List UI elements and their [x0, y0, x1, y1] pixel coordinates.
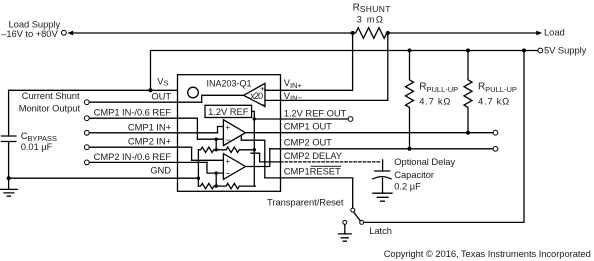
wire amp output to OUT pin — [202, 95, 244, 102]
wire CMP2 IN+ internal — [192, 147, 224, 160]
resistor divider row lower — [198, 183, 255, 188]
op-amp U1 IC box INA203-Q1 — [178, 75, 281, 192]
wire gnd vertical internal — [197, 150, 199, 186]
svg-text:GND: GND — [150, 165, 171, 176]
wire CMP1 minus drop — [215, 139, 217, 150]
switch transparent/reset-latch top contact — [351, 208, 355, 212]
node dot upper row minus — [215, 148, 218, 151]
svg-text:VS: VS — [157, 76, 168, 88]
wire 5V rail — [151, 51, 538, 91]
node 1.2V REF OUT terminal — [348, 117, 353, 122]
node dot ref out tee — [253, 117, 256, 120]
node CMP2 OUT terminal — [493, 146, 498, 151]
svg-text:Current Shunt: Current Shunt — [22, 90, 80, 101]
pin 1 indicator circle — [188, 87, 199, 98]
wire load supply top rail with left arrowhead — [72, 32, 353, 34]
comparator CMP1 — [223, 120, 245, 146]
svg-text:INA203-Q1: INA203-Q1 — [207, 78, 252, 88]
svg-text:Latch: Latch — [369, 225, 392, 236]
resistor divider row upper — [198, 147, 255, 152]
switch right contact — [360, 220, 364, 224]
svg-text:CMP1RESET: CMP1RESET — [284, 165, 341, 176]
svg-text:CMP2 DELAY: CMP2 DELAY — [284, 150, 343, 161]
svg-text:+: + — [260, 83, 265, 93]
wire CMP1 OUT row — [246, 132, 494, 134]
node rail dot pullup1 — [408, 49, 412, 53]
svg-text:+: + — [225, 122, 230, 132]
node CMP2 IN- terminal — [84, 160, 89, 165]
switch left contact — [343, 220, 347, 224]
node dot lower row minus — [215, 184, 218, 187]
wire CMP1 RESET internal stub — [241, 136, 280, 178]
svg-text:−: − — [260, 99, 265, 109]
svg-text:CMP2 IN+: CMP2 IN+ — [128, 136, 172, 147]
svg-text:Copyright © 2016, Texas Instru: Copyright © 2016, Texas Instruments Inco… — [384, 248, 591, 259]
node OUT terminal — [84, 100, 89, 105]
svg-text:RPULL-UP: RPULL-UP — [419, 81, 458, 94]
node CMP2 IN+ terminal — [84, 145, 89, 150]
svg-text:CMP2 IN-/0.6 REF: CMP2 IN-/0.6 REF — [94, 151, 172, 162]
ground symbol switch — [338, 234, 351, 241]
resistor RSHUNT — [355, 28, 388, 39]
svg-text:Transparent/Reset: Transparent/Reset — [267, 196, 344, 207]
svg-text:0.2 µF: 0.2 µF — [394, 181, 421, 192]
resistor RPULLUP1 — [406, 51, 414, 149]
ground symbol delay cap — [373, 193, 392, 201]
node 5V supply terminal — [538, 48, 543, 53]
svg-text:CMP2 OUT: CMP2 OUT — [284, 137, 332, 148]
wire CMP2 IN- row — [89, 161, 207, 163]
wire latch to 5V rail — [364, 51, 524, 223]
wire CMP2 OUT row — [270, 148, 493, 150]
node CMP1 OUT terminal — [493, 130, 498, 135]
node CMP1 IN- terminal — [84, 116, 89, 121]
wire CMP1 IN+ row — [89, 132, 217, 134]
svg-text:CMP1 IN-/0.6 REF: CMP1 IN-/0.6 REF — [94, 107, 172, 118]
svg-text:–16V to +80V: –16V to +80V — [1, 28, 58, 39]
wire 1.2V REF OUT row — [254, 118, 348, 120]
svg-text:Load: Load — [544, 26, 565, 37]
svg-text:CMP1 IN+: CMP1 IN+ — [128, 121, 172, 132]
node dot upper row ref feed — [253, 148, 256, 151]
node Load Supply terminal — [62, 30, 67, 35]
wire GND row — [9, 177, 199, 179]
svg-text:−: − — [225, 169, 230, 179]
comparator CMP2 — [223, 154, 245, 180]
wire CMP2 minus drop — [215, 173, 217, 186]
wire CMP1 IN- row — [89, 117, 197, 119]
wire CMP2 DELAY internal stub — [251, 153, 281, 162]
svg-text:1.2V REF: 1.2V REF — [208, 106, 249, 117]
svg-text:Capacitor: Capacitor — [394, 169, 434, 180]
node junction right of RSHUNT — [386, 31, 390, 35]
svg-text:VIN+: VIN+ — [284, 77, 303, 90]
capacitor CBYPASS — [8, 90, 10, 136]
svg-text:4.7 kΩ: 4.7 kΩ — [478, 96, 510, 107]
wire VIN+ riser from shunt — [265, 33, 353, 90]
node GND junction dot left — [7, 176, 11, 180]
wire VIN- riser from shunt — [265, 33, 388, 100]
svg-text:0.01 µF: 0.01 µF — [21, 141, 53, 152]
node dot pullup1 on CMP2 OUT — [408, 147, 412, 151]
svg-text:VIN−: VIN− — [284, 90, 303, 103]
svg-text:OUT: OUT — [151, 91, 171, 102]
op-amp x20 current shunt amp — [244, 83, 265, 106]
svg-text:Optional Delay: Optional Delay — [394, 156, 455, 167]
component 1.2V REF box — [205, 105, 252, 117]
wire VS row — [9, 89, 178, 91]
node CMP1 IN+ terminal — [84, 130, 89, 135]
node junction left of RSHUNT — [351, 31, 355, 35]
ground symbol left — [0, 178, 17, 196]
wire left contact to ground — [344, 225, 346, 234]
node dot pullup2 on CMP1 OUT — [466, 131, 470, 135]
svg-text:4.7 kΩ: 4.7 kΩ — [419, 96, 451, 107]
svg-text:+: + — [225, 156, 230, 166]
wire to Load arrow — [388, 32, 538, 34]
wire CMP1 IN+ internal — [218, 127, 224, 133]
svg-text:Monitor Output: Monitor Output — [19, 102, 81, 113]
svg-text:5V Supply: 5V Supply — [544, 45, 587, 56]
wire OUT row — [89, 101, 202, 103]
svg-text:CMP1 OUT: CMP1 OUT — [284, 120, 332, 131]
svg-text:1.2V REF OUT: 1.2V REF OUT — [284, 107, 347, 118]
wire CMP2 IN+ row — [89, 146, 192, 148]
wire CMP1 RESET to switch — [281, 178, 353, 208]
resistor RPULLUP2 — [464, 51, 472, 133]
capacitor optional delay 0.2uF — [382, 160, 384, 171]
wire CMP2 DELAY dashed — [281, 161, 381, 163]
node dot gnd row tee — [197, 177, 200, 180]
svg-text:−: − — [225, 135, 230, 145]
wire CMP2 output riser — [246, 149, 270, 167]
wire CMP1 IN- internal — [197, 118, 223, 139]
node rail dot pullup2 — [466, 49, 470, 53]
node dot CMP1 minus tee — [215, 138, 218, 141]
svg-text:3 mΩ: 3 mΩ — [357, 13, 384, 24]
wire 1.2V REF feed down — [252, 111, 255, 186]
node dot CMP2 minus tee — [215, 171, 218, 174]
wire CMP2 IN- internal — [207, 162, 223, 173]
switch lever — [354, 212, 360, 220]
svg-text:RPULL-UP: RPULL-UP — [478, 81, 517, 94]
node junction VS riser — [149, 88, 153, 92]
node rail dot latch riser — [522, 49, 526, 53]
